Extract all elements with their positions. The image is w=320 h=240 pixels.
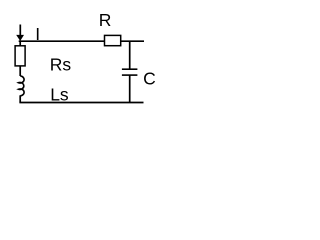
wire : left vertical from node to Rs [19,40,21,46]
wire : coil to bottom rail [19,95,21,102]
wire : bottom horizontal rail [19,102,143,104]
capacitor C plates [122,68,137,70]
wire : current-source stem [19,25,21,37]
wire : Rs to coil [19,66,21,76]
wire : capacitor top stem [129,41,131,69]
wire : top horizontal right of R [121,40,144,42]
wire : capacitor bottom stem [129,75,131,102]
inductor Ls coil [19,76,24,96]
current arrow into node [16,35,24,41]
resistor Rs [15,46,25,66]
svg-text:Rs: Rs [50,54,72,74]
wire : top horizontal left of R [19,40,105,42]
svg-text:C: C [143,69,156,89]
resistor R [105,35,121,45]
svg-text:R: R [99,10,112,30]
